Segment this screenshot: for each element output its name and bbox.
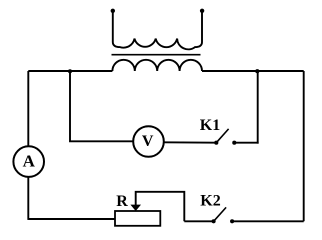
switch K1 [214, 141, 218, 145]
wire secondary right to top-right corner [202, 70, 304, 72]
svg-text:A: A [23, 151, 36, 170]
wire K1 branch vertical [257, 71, 259, 144]
wire voltmeter to K1 [164, 141, 217, 143]
wire wiper return [136, 192, 185, 222]
transformer T1 primary winding [113, 11, 202, 50]
transformer core [112, 54, 201, 56]
node junction left [68, 69, 72, 73]
voltmeter V [133, 126, 164, 157]
primary terminal dot right [200, 9, 204, 13]
wire left rail lower [27, 177, 29, 220]
rheostat R body [115, 211, 160, 226]
rheostat wiper arrow [130, 205, 141, 211]
switch K2 [212, 219, 216, 223]
wire wiper to K2 [184, 220, 213, 222]
wire bottom left to rheostat [28, 218, 115, 220]
transformer T1 secondary winding [112, 60, 202, 71]
wire voltmeter branch left drop [70, 71, 133, 141]
svg-text:K1: K1 [200, 117, 220, 134]
svg-text:K2: K2 [200, 193, 220, 210]
svg-text:V: V [142, 133, 154, 150]
primary terminal dot left [111, 9, 115, 13]
wire secondary left to top-left corner [28, 70, 112, 72]
wire right rail [303, 71, 305, 221]
svg-text:R: R [116, 193, 128, 210]
wire K2 to bottom-right corner [232, 220, 304, 222]
wire left rail upper [27, 71, 29, 147]
wire K1 to branch vertical [234, 142, 258, 144]
node junction right [255, 69, 259, 73]
ammeter A [13, 146, 44, 177]
